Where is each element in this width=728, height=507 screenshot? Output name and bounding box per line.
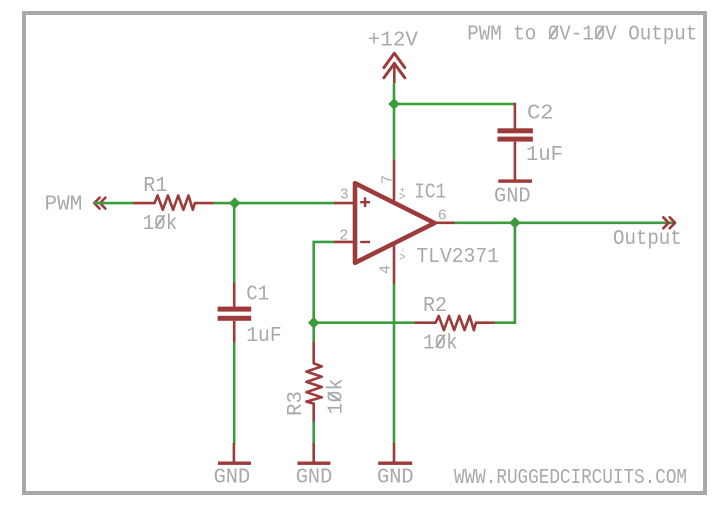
svg-text:V-: V- bbox=[399, 247, 408, 260]
ground GND1 stem bbox=[233, 443, 236, 462]
svg-text:PWM to 0V-10V Output: PWM to 0V-10V Output bbox=[467, 24, 697, 47]
svg-text:GND: GND bbox=[377, 466, 414, 489]
wire +12V to junction bbox=[393, 83, 396, 159]
title zero slash 1 bbox=[549, 26, 558, 39]
svg-text:Output: Output bbox=[613, 228, 682, 251]
svg-text:WWW.RUGGEDCIRCUITS.COM: WWW.RUGGEDCIRCUITS.COM bbox=[454, 467, 687, 490]
svg-text:PWM: PWM bbox=[45, 193, 83, 216]
junction node R1/C1 bbox=[230, 198, 239, 207]
svg-text:R3: R3 bbox=[285, 391, 308, 416]
wire output junction down to R2 bbox=[494, 223, 515, 323]
resistor R3 pins bbox=[312, 342, 315, 363]
R1 10k zero slash bbox=[156, 215, 165, 228]
svg-text:10k: 10k bbox=[143, 213, 178, 236]
svg-text:1uF: 1uF bbox=[526, 144, 563, 167]
junction node output/R2 bbox=[510, 218, 519, 227]
ground GND3 bar bbox=[378, 462, 412, 465]
resistor R2 pins bbox=[414, 321, 435, 324]
ground GND1 bar bbox=[218, 462, 251, 465]
svg-text:IC1: IC1 bbox=[414, 182, 446, 205]
capacitor C1 top pin bbox=[233, 283, 236, 307]
ground GND3 stem bbox=[393, 443, 396, 462]
svg-text:C1: C1 bbox=[246, 283, 269, 306]
svg-text:2: 2 bbox=[339, 227, 348, 244]
junction node R3 bbox=[309, 318, 318, 327]
svg-text:R1: R1 bbox=[143, 175, 167, 198]
wire R3 to ground bbox=[312, 422, 315, 444]
op-amp minus sign bbox=[360, 241, 370, 243]
PWM input arrow (double chevron) bbox=[94, 198, 105, 209]
wire +12V junction to C2 bbox=[394, 103, 515, 106]
op-amp IC1 triangle bbox=[355, 183, 435, 263]
capacitor C2 bottom pin bbox=[514, 142, 517, 180]
wire junction down to C1 bbox=[233, 203, 236, 283]
wire pin6 to output arrow bbox=[455, 222, 677, 225]
op-amp IC1 pin3 lead bbox=[334, 202, 354, 205]
value 10k of R3 (rotated) bbox=[326, 379, 349, 415]
svg-text:C2: C2 bbox=[527, 103, 554, 126]
wire R1 to junction to pin3 bbox=[214, 202, 335, 205]
resistor R3 zigzag (vertical) bbox=[306, 363, 321, 403]
ground GND2 bar bbox=[297, 462, 330, 465]
junction node +12V rail bbox=[389, 99, 398, 108]
svg-text:1uF: 1uF bbox=[246, 325, 282, 348]
svg-text:+12V: +12V bbox=[368, 29, 419, 52]
svg-text:TLV2371: TLV2371 bbox=[416, 246, 499, 269]
wire junction down to R3 bbox=[312, 323, 315, 343]
op-amp pin6 output lead bbox=[435, 222, 455, 225]
wire R3 junction to R2 bbox=[314, 321, 415, 324]
resistor R1 zigzag bbox=[155, 196, 195, 210]
svg-text:GND: GND bbox=[494, 185, 531, 208]
capacitor C2 top pin bbox=[514, 103, 517, 129]
resistor R1 pins bbox=[134, 202, 155, 205]
output arrow (double chevron) bbox=[663, 217, 675, 228]
+12V stem pin bbox=[393, 62, 396, 83]
resistor R2 zigzag bbox=[436, 316, 476, 330]
op-amp IC1 pin2 lead bbox=[334, 241, 354, 244]
wire C1 to ground bbox=[233, 343, 236, 444]
svg-text:R2: R2 bbox=[423, 295, 447, 318]
svg-text:3: 3 bbox=[340, 187, 349, 204]
wire pin2 to R3 junction bbox=[314, 242, 334, 323]
svg-text:V+: V+ bbox=[399, 186, 408, 199]
+12V supply symbol chevrons bbox=[384, 53, 405, 78]
wire pin4 to ground bbox=[393, 284, 396, 444]
capacitor C2 plates bbox=[498, 128, 533, 133]
ground GND4 bar (C2) bbox=[498, 179, 532, 182]
title zero slash 2 bbox=[595, 26, 604, 39]
svg-text:10k: 10k bbox=[423, 332, 458, 355]
svg-text:GND: GND bbox=[296, 466, 333, 489]
capacitor C1 plates bbox=[218, 307, 252, 312]
R3 10k zero slash bbox=[328, 392, 341, 401]
svg-text:GND: GND bbox=[214, 466, 251, 489]
ground GND2 stem bbox=[312, 443, 315, 462]
op-amp pin4 lead (V-) bbox=[393, 244, 396, 284]
svg-text:4: 4 bbox=[378, 265, 395, 274]
svg-text:10k: 10k bbox=[326, 379, 349, 415]
op-amp plus sign bbox=[360, 197, 370, 207]
R2 10k zero slash bbox=[436, 335, 445, 348]
op-amp pin7 lead (V+) bbox=[393, 159, 396, 200]
wire PWM arrow to R1 bbox=[94, 202, 134, 205]
capacitor C1 bottom pin bbox=[233, 321, 236, 343]
